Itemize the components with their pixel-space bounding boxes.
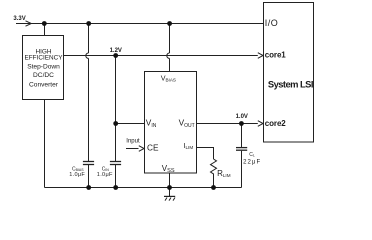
svg-text:core1: core1 <box>265 50 286 59</box>
svg-text:System LSI: System LSI <box>268 78 313 89</box>
svg-text:EFFICIENCY: EFFICIENCY <box>25 54 64 61</box>
svg-text:1.0μF: 1.0μF <box>97 172 113 178</box>
svg-text:DC/DC: DC/DC <box>33 72 54 79</box>
svg-text:22μF: 22μF <box>243 160 261 166</box>
svg-text:1.2V: 1.2V <box>110 48 122 54</box>
svg-text:1.0V: 1.0V <box>236 114 248 120</box>
svg-text:core2: core2 <box>265 119 286 128</box>
svg-text:CL: CL <box>249 152 255 158</box>
svg-text:Converter: Converter <box>29 82 59 89</box>
svg-text:Step-Down: Step-Down <box>27 64 60 71</box>
svg-text:CE: CE <box>147 143 159 153</box>
svg-text:I/O: I/O <box>265 18 279 28</box>
svg-text:1.0μF: 1.0μF <box>69 172 85 178</box>
svg-text:3.3V: 3.3V <box>13 16 25 22</box>
svg-text:Input: Input <box>126 138 140 144</box>
